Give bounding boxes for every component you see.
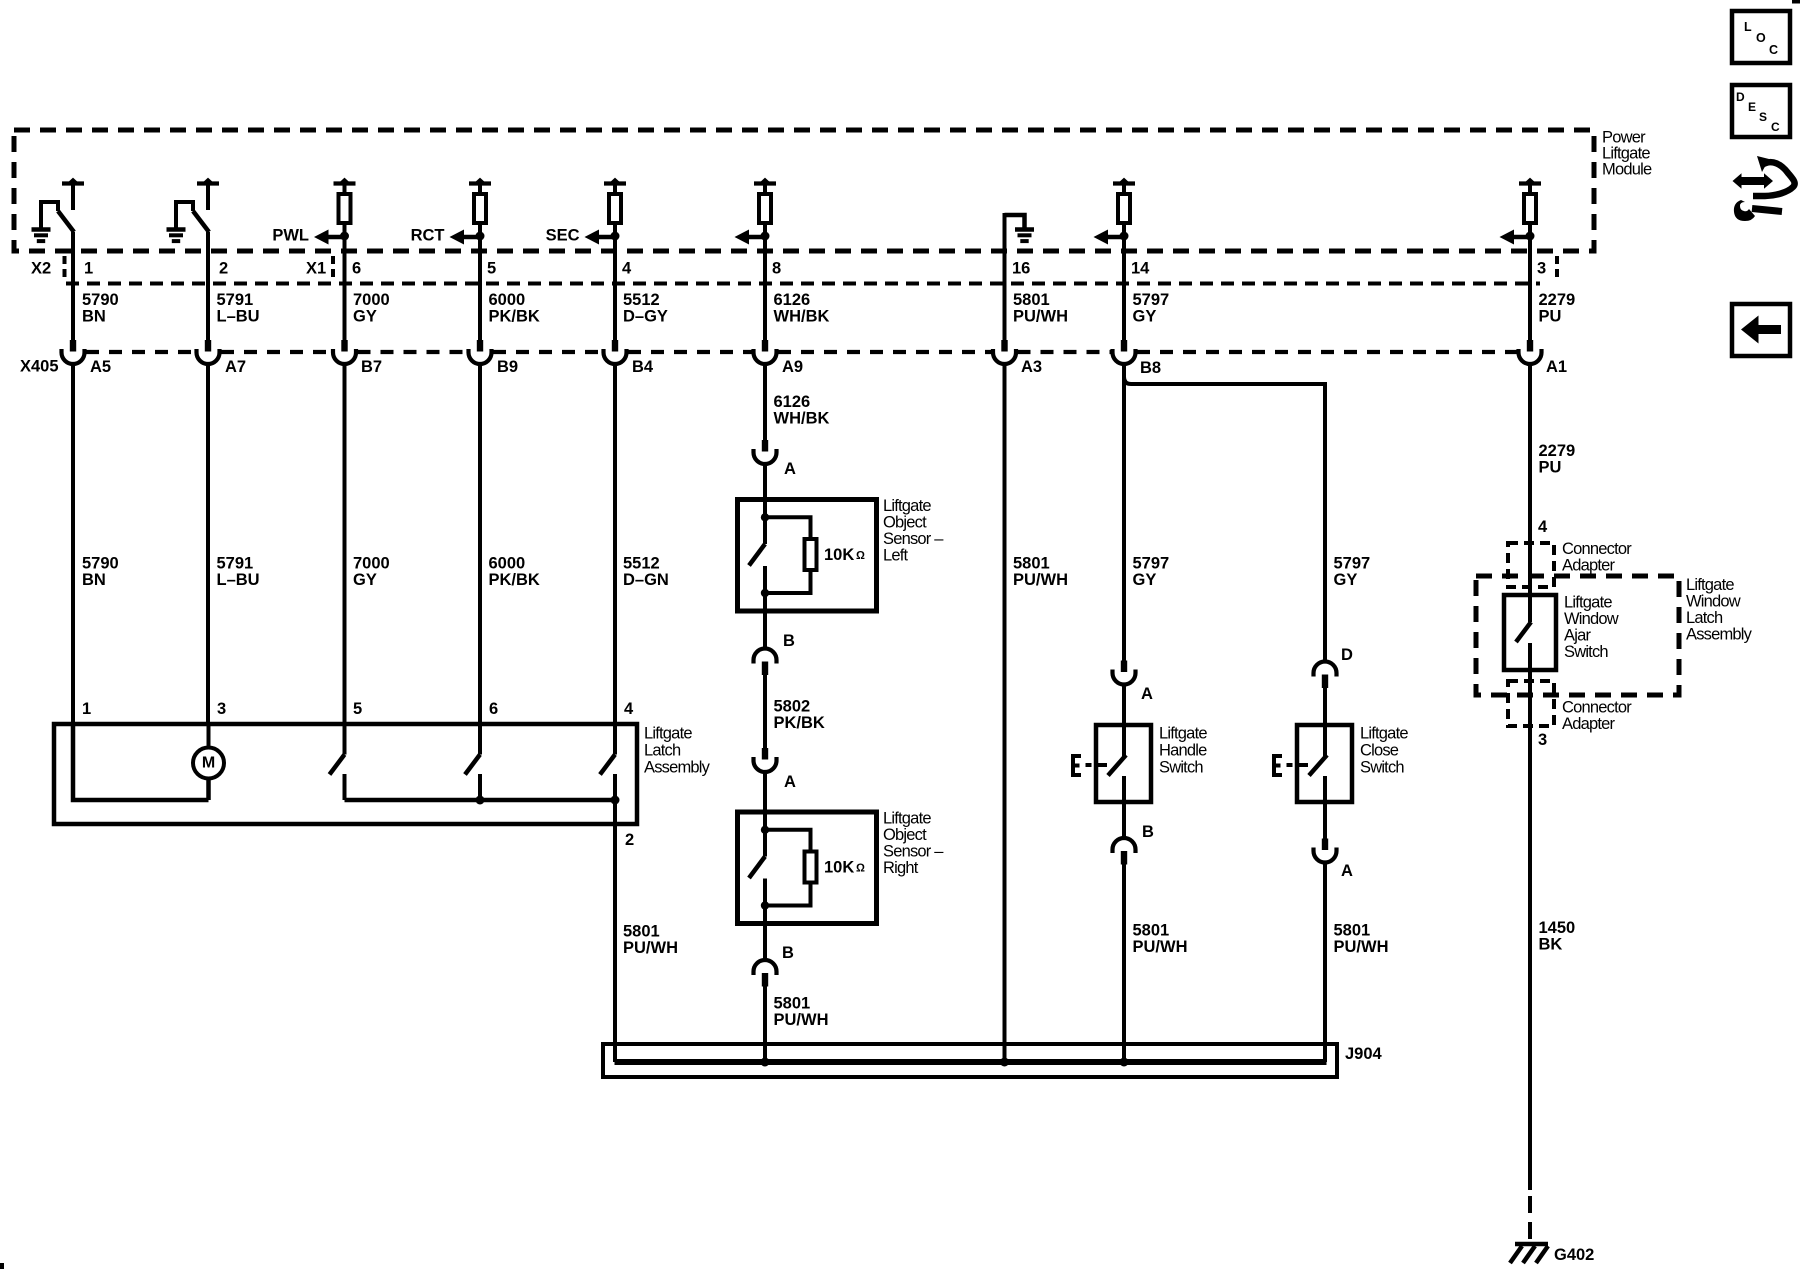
svg-text:5: 5 [353, 700, 362, 718]
svg-text:5801: 5801 [774, 995, 811, 1013]
wire: close switch connector to box [1323, 687, 1327, 726]
svg-text:Window: Window [1564, 610, 1619, 628]
svg-text:Liftgate: Liftgate [1686, 576, 1734, 594]
node: module internal SEC output - continuation bar [604, 181, 626, 185]
svg-text:Switch: Switch [1360, 759, 1404, 777]
connector X405 pin B7 [341, 340, 347, 352]
svg-text:3: 3 [1538, 731, 1547, 749]
svg-text:Liftgate: Liftgate [883, 810, 931, 828]
svg-text:WH/BK: WH/BK [774, 410, 830, 428]
wire: 5801 PU/WH from X405 A3 to junction block J904 [1003, 364, 1007, 1062]
svg-text:7000: 7000 [353, 555, 390, 573]
wire: sensor-right resistor bottom branch [765, 883, 811, 906]
svg-text:5791: 5791 [217, 555, 254, 573]
svg-text:2279: 2279 [1539, 442, 1576, 460]
ground: module internal ground for pin2 switch [167, 227, 186, 232]
connector: sensor-left pin A inline connector [762, 440, 768, 452]
wire: dashed continuation of 1450 BK to ground [1528, 1196, 1532, 1240]
connector X405 pin A3 [1001, 340, 1007, 352]
junction block J904 box [603, 1044, 1337, 1077]
svg-text:B4: B4 [632, 358, 654, 376]
node: module internal driver for pin 1 - continuation bar [62, 181, 84, 185]
svg-text:5801: 5801 [1133, 922, 1170, 940]
svg-text:6126: 6126 [774, 393, 811, 411]
actuator E: handle switch [1073, 756, 1081, 775]
svg-text:Left: Left [883, 547, 909, 565]
svg-text:2279: 2279 [1539, 291, 1576, 309]
svg-text:A1: A1 [1546, 358, 1567, 376]
svg-text:5512: 5512 [623, 291, 660, 309]
wire: sensor-right to resistor branch [765, 830, 811, 852]
page corner tick top-right [1792, 0, 1800, 4]
svg-text:Liftgate: Liftgate [1360, 725, 1408, 743]
component box: Liftgate Window Ajar Switch [1504, 595, 1556, 670]
svg-text:PU/WH: PU/WH [1013, 308, 1068, 326]
svg-text:2: 2 [219, 260, 228, 278]
svg-text:D: D [1736, 90, 1745, 104]
module box: Power Liftgate Module dashed outline [14, 130, 1594, 251]
svg-text:GY: GY [353, 571, 377, 589]
icon box: DESC [1732, 85, 1790, 137]
svg-text:L–BU: L–BU [217, 308, 260, 326]
svg-text:Handle: Handle [1159, 742, 1207, 760]
svg-text:B7: B7 [361, 358, 382, 376]
switch: latch switch at pin 6 [478, 726, 482, 755]
switch: liftgate window ajar switch contact [1516, 622, 1531, 642]
resistor R 10K sensor-right [805, 852, 817, 883]
svg-text:RCT: RCT [411, 227, 445, 245]
component dashed box: Liftgate Window Latch Assembly [1476, 576, 1679, 695]
switch: sensor-right contact [763, 830, 767, 857]
svg-text:GY: GY [1133, 308, 1157, 326]
svg-text:5: 5 [487, 260, 496, 278]
svg-text:D: D [1341, 646, 1353, 664]
net arrow: PWL signal [328, 235, 345, 240]
switch S1: module internal low-side switch pin1 [41, 202, 58, 228]
svg-text:Assembly: Assembly [644, 759, 711, 777]
component box: Liftgate Handle Switch [1096, 725, 1151, 802]
connector adapter (lower) dashed box [1508, 681, 1554, 726]
svg-text:5801: 5801 [1013, 291, 1050, 309]
wire: handle switch to pin B connector [1122, 802, 1126, 838]
wire: 6126 WH/BK from X405 A9 to sensor-left pin A [763, 364, 767, 440]
motor M: liftgate latch motor [193, 748, 224, 779]
svg-text:PU: PU [1539, 308, 1562, 326]
svg-text:5791: 5791 [217, 291, 254, 309]
connector X405 pin A7 [205, 340, 211, 352]
svg-text:M: M [202, 754, 215, 771]
wire: resistor to pin 14 [1122, 224, 1126, 340]
wire: resistor to pin 8 [763, 224, 767, 340]
svg-text:Switch: Switch [1159, 759, 1203, 777]
connector X405 pin A1 [1527, 340, 1533, 352]
wire: 5791 L-BU from module pin2 to X405 A7 [206, 232, 210, 340]
wire: J904 internal bus [615, 1059, 1327, 1065]
svg-text:Window: Window [1686, 593, 1741, 611]
node: module internal PWL output - continuation bar [334, 181, 356, 185]
wire: 6000 PK/BK from X405 B9 to liftgate latch pin 6 [478, 364, 482, 726]
svg-text:7000: 7000 [353, 291, 390, 309]
connector: sensor-right pin A inline connector [762, 748, 768, 760]
wire: circuit 5801 PU/WH handle switch to J904 [1122, 863, 1126, 1062]
junction: J904 at sensor circuit [761, 1058, 770, 1067]
svg-text:10K: 10K [824, 859, 854, 877]
svg-text:A: A [784, 460, 796, 478]
svg-text:Ω: Ω [856, 863, 865, 875]
wire: 5791 L-BU from X405 A7 to liftgate latch pin 3 [206, 364, 210, 726]
wire: sensor-left resistor bottom branch [765, 570, 811, 593]
svg-text:PK/BK: PK/BK [489, 308, 540, 326]
svg-text:6: 6 [489, 700, 498, 718]
svg-text:GY: GY [1133, 571, 1157, 589]
svg-text:D–GY: D–GY [623, 308, 668, 326]
wire: sensor-right pin B to inline connector [763, 924, 767, 960]
svg-text:A7: A7 [225, 358, 246, 376]
wire: stub from bar to switch contact (pin1) [71, 185, 75, 210]
svg-text:SEC: SEC [546, 227, 580, 245]
wire: ajar switch lower contact through adapter [1528, 643, 1532, 1190]
svg-text:5790: 5790 [82, 555, 119, 573]
wire: 5797 GY branch from B8 to close switch [1124, 377, 1325, 661]
svg-text:E: E [1748, 100, 1756, 114]
resistor: module internal pull-up pin 14 [1118, 194, 1130, 223]
svg-text:D–GN: D–GN [623, 571, 669, 589]
wire: latch pin1 internal down and across to motor [73, 726, 209, 800]
junction: sensor-left bottom node [761, 589, 769, 597]
connector X405 pin B9 [477, 340, 483, 352]
connector X1 separator [331, 256, 335, 280]
net arrow: ajar switch signal to module logic [1513, 235, 1530, 240]
wire: resistor to pin 3 [1528, 224, 1532, 340]
svg-text:X405: X405 [20, 358, 59, 376]
junction: J904 at A3 circuit [1000, 1058, 1009, 1067]
net arrow: RCT signal [463, 235, 480, 240]
wire: 5790 BN from module pin1 to X405 A5 [71, 232, 75, 340]
svg-text:6126: 6126 [774, 291, 811, 309]
junction: sensor-right top node [761, 826, 769, 834]
svg-text:X2: X2 [31, 260, 51, 278]
junction: sensor-right bottom node [761, 901, 769, 909]
page corner tick bottom-left [0, 1263, 4, 1269]
resistor: module internal pull-up on SEC output [609, 194, 621, 223]
wire: resistor to pin 4 [613, 224, 617, 340]
svg-text:6000: 6000 [489, 555, 526, 573]
svg-text:A: A [1141, 685, 1153, 703]
svg-text:Liftgate: Liftgate [644, 725, 692, 743]
wire: sensor-right internal entry [763, 812, 767, 830]
svg-text:4: 4 [1538, 518, 1548, 536]
switch: latch switch at pin 4 [613, 726, 617, 755]
svg-text:2: 2 [625, 831, 634, 849]
ground: module internal ground hook at pin 16 [1005, 215, 1025, 229]
connector X405 pin A9 [762, 340, 768, 352]
svg-text:5797: 5797 [1133, 555, 1170, 573]
svg-text:5512: 5512 [623, 555, 660, 573]
node: module internal ajar input - continuation bar [1519, 181, 1541, 185]
svg-text:1: 1 [84, 260, 93, 278]
svg-text:Connector: Connector [1562, 699, 1632, 717]
connector: close switch pin A inline connector [1322, 839, 1328, 851]
wire: circuit 5801 PU/WH close switch to J904 [1323, 863, 1327, 1063]
connector X2 separator [63, 256, 67, 280]
svg-text:3: 3 [217, 700, 226, 718]
wire: sensor-left pin B to inline connector [763, 611, 767, 648]
svg-text:BN: BN [82, 571, 106, 589]
junction: latch bus at pin 4/2 [611, 796, 620, 805]
svg-text:1450: 1450 [1539, 919, 1576, 937]
svg-text:Right: Right [883, 859, 919, 877]
actuator E: close switch [1274, 756, 1282, 775]
node: module internal driver for pin 2 - continuation bar [197, 181, 219, 185]
switch: sensor-left contact [763, 517, 767, 544]
svg-text:PU/WH: PU/WH [1133, 938, 1188, 956]
connector pin 3 separator [1555, 256, 1559, 280]
svg-text:Close: Close [1360, 742, 1399, 760]
component box: Liftgate Object Sensor - Left [738, 500, 877, 612]
wire: sensor-left exit [763, 593, 767, 611]
svg-text:Liftgate: Liftgate [1159, 725, 1207, 743]
svg-text:PK/BK: PK/BK [489, 571, 540, 589]
svg-text:Assembly: Assembly [1686, 626, 1753, 644]
svg-text:Adapter: Adapter [1562, 557, 1615, 575]
svg-text:16: 16 [1012, 260, 1030, 278]
wire: sensor-left to resistor branch [765, 517, 811, 539]
svg-text:B9: B9 [497, 358, 518, 376]
resistor: module internal pull-up on RCT output [474, 194, 486, 223]
ground: module internal ground for pin1 switch [32, 227, 51, 232]
switch: liftgate handle switch contact [1122, 725, 1126, 756]
svg-text:14: 14 [1131, 260, 1150, 278]
wire: motor bottom stub [206, 779, 211, 801]
resistor: module internal pull-up on PWL output [339, 194, 351, 223]
node: module internal handle input - continuation bar [1113, 181, 1135, 185]
inline connector X405 dotted line [86, 350, 195, 354]
svg-text:B: B [1142, 823, 1154, 841]
svg-text:Ajar: Ajar [1564, 627, 1591, 645]
node: module internal RCT output - continuation bar [469, 181, 491, 185]
svg-text:G402: G402 [1554, 1246, 1594, 1264]
svg-text:8: 8 [772, 260, 781, 278]
svg-text:3: 3 [1537, 260, 1546, 278]
svg-text:A: A [784, 773, 796, 791]
ground G402: chassis ground [1515, 1242, 1548, 1247]
svg-text:5797: 5797 [1334, 555, 1371, 573]
svg-text:BN: BN [82, 308, 106, 326]
switch: latch switch at pin 5 [343, 726, 347, 755]
wire: circuit 5801 PU/WH from sensor-right to J904 [763, 985, 767, 1062]
svg-text:Switch: Switch [1564, 643, 1608, 661]
svg-text:5797: 5797 [1133, 291, 1170, 309]
svg-text:S: S [1759, 110, 1767, 124]
svg-text:6000: 6000 [489, 291, 526, 309]
wire: 5797 GY main run to handle switch [1122, 364, 1126, 661]
svg-text:Liftgate: Liftgate [883, 497, 931, 515]
svg-text:Adapter: Adapter [1562, 715, 1615, 733]
svg-text:PU/WH: PU/WH [1334, 938, 1389, 956]
resistor: module internal pull-up pin 3 [1524, 194, 1536, 223]
svg-text:O: O [1756, 31, 1766, 45]
resistor R 10K sensor-left [805, 539, 817, 570]
connector row lower dashed line [66, 282, 1540, 286]
svg-text:Liftgate: Liftgate [1564, 594, 1612, 612]
svg-text:J904: J904 [1345, 1045, 1383, 1063]
svg-text:5801: 5801 [1334, 922, 1371, 940]
switch: liftgate close switch contact [1323, 725, 1327, 756]
wire: close switch to pin A connector [1323, 802, 1327, 839]
svg-text:GY: GY [1334, 571, 1358, 589]
icon box: back arrow [1732, 304, 1790, 356]
wire: sensor-left internal entry [763, 500, 767, 518]
svg-text:B8: B8 [1140, 359, 1161, 377]
svg-text:1: 1 [82, 700, 91, 718]
connector: sensor-right pin B inline connector [754, 960, 777, 975]
connector: handle switch pin A inline connector [1121, 661, 1127, 673]
wire: sensor-right exit [763, 906, 767, 924]
wire: stub from bar to switch contact (pin2) [206, 185, 210, 210]
svg-text:PWL: PWL [272, 227, 309, 245]
component box: Liftgate Close Switch [1297, 725, 1352, 802]
svg-text:GY: GY [353, 308, 377, 326]
wire: 7000 GY from X405 B7 to liftgate latch pin 5 [343, 364, 347, 726]
net arrow: SEC signal [598, 235, 615, 240]
wire: 5790 BN from X405 A5 to liftgate latch pin 1 [71, 364, 75, 726]
connector: close switch pin D inline connector [1314, 662, 1337, 677]
svg-text:A: A [1341, 862, 1353, 880]
svg-text:C: C [1769, 43, 1778, 57]
svg-text:Module: Module [1602, 161, 1652, 179]
svg-text:PU/WH: PU/WH [774, 1011, 829, 1029]
net arrow: sensor signal to module logic [748, 235, 765, 240]
junction: latch bus at pin 6 [476, 796, 485, 805]
wire: 5512 D-GN from X405 B4 to liftgate latch pin 4 [613, 364, 617, 726]
svg-text:PU/WH: PU/WH [1013, 571, 1068, 589]
connector X405 pin B4 [612, 340, 618, 352]
connector: handle switch pin B inline connector [1113, 838, 1136, 853]
wire: resistor to pin 6 [343, 224, 347, 340]
wire: circuit 5802 PK/BK between object sensors [763, 674, 767, 749]
svg-text:Latch: Latch [644, 742, 681, 760]
svg-text:4: 4 [624, 700, 634, 718]
svg-text:10K: 10K [824, 546, 854, 564]
svg-text:A9: A9 [782, 358, 803, 376]
connector adapter (upper) dashed box [1508, 543, 1554, 587]
svg-text:B: B [782, 944, 794, 962]
resistor: module internal pull-up pin 8 [759, 194, 771, 223]
svg-text:5802: 5802 [774, 698, 811, 716]
junction: J904 at handle circuit [1120, 1058, 1129, 1067]
svg-text:Object: Object [883, 514, 927, 532]
wire: module internal ground to pin 16 [1003, 213, 1007, 340]
icon box: LOC [1732, 11, 1790, 63]
svg-text:C: C [1771, 120, 1780, 134]
svg-text:A3: A3 [1021, 358, 1042, 376]
svg-text:Sensor –: Sensor – [883, 843, 944, 861]
svg-text:Latch: Latch [1686, 609, 1723, 627]
svg-text:Connector: Connector [1562, 540, 1632, 558]
svg-text:6: 6 [352, 260, 361, 278]
connector: sensor-left pin B inline connector [754, 649, 777, 664]
svg-text:PU/WH: PU/WH [623, 939, 678, 957]
svg-text:B: B [783, 632, 795, 650]
svg-text:X1: X1 [306, 260, 326, 278]
wire: latch pin3 to motor top [207, 726, 211, 748]
junction: sensor-left top node [761, 513, 769, 521]
icon: double arrow with wrench [1733, 173, 1774, 188]
svg-text:5801: 5801 [1013, 555, 1050, 573]
svg-text:WH/BK: WH/BK [774, 308, 830, 326]
svg-text:L: L [1744, 20, 1752, 34]
net arrow: handle switch signal to module logic [1107, 235, 1124, 240]
node: module internal sensor feed - continuation bar [754, 181, 776, 185]
svg-text:L–BU: L–BU [217, 571, 260, 589]
svg-text:5790: 5790 [82, 291, 119, 309]
component box: Liftgate Latch Assembly [54, 724, 637, 824]
wire: 5801 PU/WH from latch pin 2 down to junction block J904 [613, 800, 617, 1062]
component box: Liftgate Object Sensor - Right [738, 812, 877, 924]
wire: latch internal common bus [345, 798, 616, 803]
svg-text:Sensor –: Sensor – [883, 530, 944, 548]
svg-text:5801: 5801 [623, 923, 660, 941]
wire: 2279 PU from X405 A1 to window ajar switch [1528, 364, 1532, 622]
svg-text:4: 4 [622, 260, 632, 278]
connector X405 pin A5 [70, 340, 76, 352]
switch S2: module internal low-side switch pin2 [176, 202, 193, 228]
wire: resistor to pin 5 [478, 224, 482, 340]
svg-text:A5: A5 [90, 358, 111, 376]
svg-text:Object: Object [883, 826, 927, 844]
svg-text:PU: PU [1539, 459, 1562, 477]
svg-text:Ω: Ω [856, 550, 865, 562]
connector X405 pin B8 [1121, 340, 1127, 352]
svg-text:PK/BK: PK/BK [774, 714, 825, 732]
svg-text:BK: BK [1539, 936, 1563, 954]
